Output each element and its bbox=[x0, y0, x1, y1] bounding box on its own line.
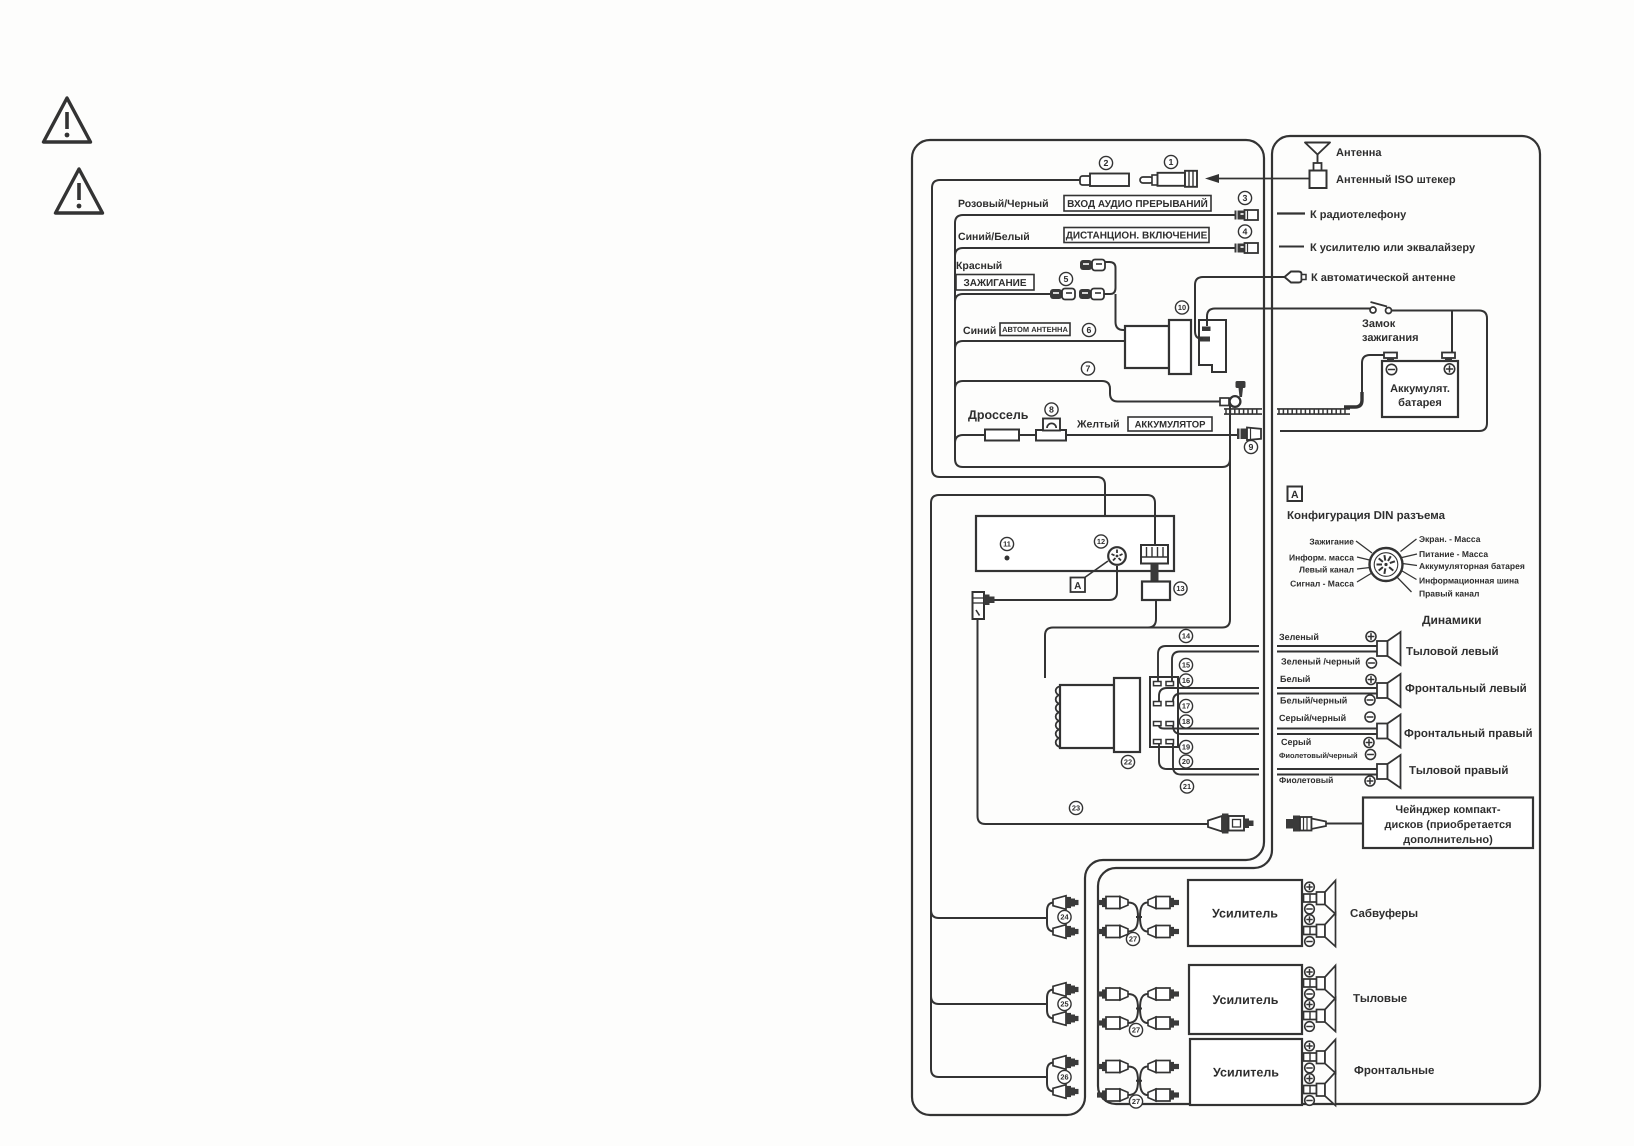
pin pair row 1 bbox=[1154, 682, 1174, 686]
svg-text:11: 11 bbox=[1003, 540, 1011, 549]
svg-text:Синий/Белый: Синий/Белый bbox=[958, 231, 1030, 243]
svg-text:Розовый/Черный: Розовый/Черный bbox=[958, 198, 1049, 210]
wire row ignition (red) bbox=[955, 294, 1051, 302]
svg-text:Тыловой левый: Тыловой левый bbox=[1406, 646, 1499, 658]
cluster 25 RCA leads bbox=[1047, 983, 1079, 1026]
svg-text:АВТОМ АНТЕННА: АВТОМ АНТЕННА bbox=[1002, 325, 1068, 334]
connector stem bbox=[1151, 564, 1159, 583]
DIN pinout leader lines bbox=[1356, 539, 1417, 592]
wire ignition feed from switch to socket pin 1 bbox=[1207, 309, 1370, 327]
splitter 27b bbox=[1097, 988, 1179, 1029]
amplifier 1 with subwoofers bbox=[1188, 880, 1418, 947]
DIN socket female (CD changer) bbox=[1286, 816, 1326, 832]
svg-text:Аккумулят.: Аккумулят. bbox=[1390, 383, 1450, 395]
label 19 bbox=[1179, 740, 1192, 753]
svg-text:ЗАЖИГАНИЕ: ЗАЖИГАНИЕ bbox=[963, 278, 1026, 289]
connector plug 9 bbox=[1237, 428, 1261, 441]
warning triangle icon 1 bbox=[44, 98, 91, 142]
wire from aux jack to DIN circle bbox=[993, 566, 1117, 600]
svg-text:20: 20 bbox=[1182, 757, 1190, 766]
svg-text:27: 27 bbox=[1132, 1026, 1140, 1035]
svg-text:24: 24 bbox=[1060, 913, 1069, 922]
corrugated ground strap left bbox=[1224, 409, 1262, 414]
battery plus terminal bbox=[1444, 364, 1454, 374]
bullet socket automatic antenna bbox=[1277, 272, 1307, 283]
node A reference box bbox=[1288, 487, 1303, 502]
svg-text:6: 6 bbox=[1087, 325, 1092, 335]
wire U-loop to ground stud bbox=[955, 450, 1230, 467]
svg-text:15: 15 bbox=[1182, 661, 1190, 670]
bullet connector pair lower-left bbox=[1050, 289, 1075, 300]
speaker pin connector block bbox=[1150, 677, 1178, 747]
svg-text:16: 16 bbox=[1182, 676, 1190, 685]
svg-text:A: A bbox=[1074, 581, 1081, 592]
svg-text:К усилителю или эквалайзеру: К усилителю или эквалайзеру bbox=[1310, 242, 1476, 254]
speaker front-right bbox=[1377, 715, 1401, 748]
aux jack plug bbox=[973, 592, 995, 619]
wire to CD changer bbox=[1326, 823, 1363, 825]
svg-text:14: 14 bbox=[1182, 632, 1191, 641]
amplifier 2 with rear speakers bbox=[1189, 965, 1407, 1034]
wire antenna lead from connector 2 down into head unit bbox=[932, 180, 1105, 534]
pin pair row 2 bbox=[1154, 702, 1174, 706]
terminal minus rear-left bbox=[1367, 658, 1377, 668]
svg-text:ВХОД АУДИО ПРЕРЫВАНИЙ: ВХОД АУДИО ПРЕРЫВАНИЙ bbox=[1067, 197, 1208, 210]
ignition switch bbox=[1370, 302, 1392, 314]
battery bbox=[1382, 353, 1458, 418]
wire front-right speaker pair (gray) bbox=[1159, 726, 1377, 735]
pin pair row 3 bbox=[1154, 722, 1174, 726]
speaker rear-left bbox=[1377, 632, 1401, 665]
svg-text:Красный: Красный bbox=[956, 260, 1002, 272]
label 9 bbox=[1244, 440, 1257, 453]
svg-text:Сабвуферы: Сабвуферы bbox=[1350, 908, 1418, 920]
wire row audio-interrupt input (pink/black) bbox=[955, 215, 1235, 459]
svg-text:21: 21 bbox=[1183, 782, 1191, 791]
fuse holder 8 bbox=[1036, 419, 1066, 441]
svg-text:Конфигурация DIN разъема: Конфигурация DIN разъема bbox=[1287, 510, 1446, 522]
wire branch to cluster 25 bbox=[931, 996, 1047, 1004]
ISO antenna socket bbox=[1310, 163, 1327, 188]
svg-text:Левый канал: Левый канал bbox=[1299, 565, 1354, 575]
svg-text:7: 7 bbox=[1086, 364, 1091, 374]
svg-text:1: 1 bbox=[1169, 157, 1174, 167]
label 27a bbox=[1126, 932, 1139, 945]
svg-text:Тыловой правый: Тыловой правый bbox=[1409, 765, 1508, 777]
ISO connector housing 22 bbox=[1060, 678, 1140, 752]
svg-text:Белый: Белый bbox=[1280, 674, 1310, 684]
label 22 bbox=[1121, 755, 1134, 768]
head unit rear pin block bbox=[1141, 545, 1168, 564]
label 25 bbox=[1058, 997, 1071, 1010]
svg-text:Усилитель: Усилитель bbox=[1212, 907, 1278, 921]
relay socket bracket bbox=[1199, 320, 1226, 372]
terminal minus front-left bbox=[1365, 695, 1375, 705]
label 2 bbox=[1099, 156, 1112, 169]
wire battery minus to ground strap bbox=[1362, 355, 1384, 392]
boxed label ВХОД АУДИО ПРЕРЫВАНИЙ bbox=[1064, 196, 1211, 212]
bullet connector pair lower-right bbox=[1079, 289, 1104, 300]
label 27c bbox=[1129, 1095, 1142, 1108]
svg-text:27: 27 bbox=[1132, 1097, 1140, 1106]
warning triangle icon 2 bbox=[56, 169, 103, 213]
svg-text:27: 27 bbox=[1129, 935, 1137, 944]
svg-text:Экран. - Масса: Экран. - Масса bbox=[1419, 534, 1481, 544]
svg-text:17: 17 bbox=[1182, 702, 1190, 711]
svg-text:18: 18 bbox=[1182, 717, 1190, 726]
svg-text:Серый/черный: Серый/черный bbox=[1279, 713, 1346, 723]
svg-text:9: 9 bbox=[1249, 442, 1254, 452]
relay U10 body bbox=[1125, 320, 1191, 374]
adapter block 13 bbox=[1142, 582, 1170, 601]
label 13 bbox=[1174, 582, 1187, 595]
choke body bbox=[985, 430, 1019, 441]
svg-text:Антенна: Антенна bbox=[1336, 147, 1382, 159]
ring terminal bbox=[1220, 396, 1240, 407]
socket pin 2 bbox=[1200, 337, 1210, 342]
label 15 bbox=[1179, 658, 1192, 671]
svg-text:Зеленый: Зеленый bbox=[1279, 632, 1319, 642]
svg-text:Аккумуляторная батарея: Аккумуляторная батарея bbox=[1419, 561, 1525, 571]
wire 7 chassis ground run bbox=[955, 381, 1221, 402]
svg-text:22: 22 bbox=[1124, 758, 1132, 767]
CD changer box bbox=[1363, 798, 1533, 849]
svg-text:Белый/черный: Белый/черный bbox=[1280, 696, 1347, 706]
label 26 bbox=[1058, 1070, 1071, 1083]
svg-text:Фронтальный правый: Фронтальный правый bbox=[1404, 728, 1533, 740]
svg-text:Тыловые: Тыловые bbox=[1353, 993, 1407, 1005]
antenna symbol bbox=[1305, 143, 1330, 164]
svg-text:Чейнджер компакт-: Чейнджер компакт- bbox=[1395, 804, 1501, 816]
svg-text:Фронтальный левый: Фронтальный левый bbox=[1405, 683, 1527, 695]
connector C1 antenna plug bbox=[1140, 171, 1197, 187]
label 8 bbox=[1045, 403, 1058, 416]
svg-text:Желтый: Желтый bbox=[1076, 419, 1120, 431]
svg-text:Антенный ISO штекер: Антенный ISO штекер bbox=[1336, 174, 1456, 186]
vehicle accessories enclosure box bbox=[1098, 136, 1540, 1104]
node A marker box with leader bbox=[1071, 561, 1109, 592]
head unit 11 outline bbox=[976, 516, 1174, 571]
label 14 bbox=[1179, 629, 1192, 642]
svg-text:Зажигание: Зажигание bbox=[1309, 537, 1354, 547]
amplifier 3 with front speakers bbox=[1190, 1039, 1434, 1106]
wire front-left speaker pair (white) bbox=[1159, 688, 1377, 702]
svg-text:Информ. масса: Информ. масса bbox=[1289, 553, 1354, 563]
label 7 bbox=[1081, 362, 1094, 375]
ground strap elbow bbox=[1344, 392, 1362, 407]
ground bolt bbox=[1236, 381, 1246, 397]
arrow from ISO antenna plug to connector 1 bbox=[1205, 174, 1311, 183]
boxed label АККУМУЛЯТОР bbox=[1128, 417, 1212, 431]
svg-text:2: 2 bbox=[1104, 158, 1109, 168]
wire row power antenna (blue) bbox=[955, 341, 1125, 349]
cluster 24 RCA leads bbox=[1047, 896, 1079, 939]
svg-text:К автоматической антенне: К автоматической антенне bbox=[1311, 272, 1456, 284]
DIN plug pinout diagram bbox=[1370, 548, 1403, 581]
svg-text:Фиолетовый/черный: Фиолетовый/черный bbox=[1279, 751, 1358, 760]
terminal plus rear-right bbox=[1365, 776, 1375, 786]
wire automatic antenna output to bullet bbox=[1195, 277, 1285, 339]
terminal minus front-right bbox=[1365, 712, 1375, 722]
wire from block 13 to ground stud and ISO block bbox=[1045, 403, 1230, 678]
label 23 bbox=[1069, 801, 1082, 814]
wire red drop to relay bbox=[1116, 294, 1127, 330]
head-unit harness enclosure box bbox=[912, 140, 1264, 1115]
splitter 27a bbox=[1097, 897, 1179, 938]
label 1 bbox=[1164, 155, 1177, 168]
wire rear-right speaker pair (violet) bbox=[1159, 744, 1377, 775]
boxed label ЗАЖИГАНИЕ bbox=[956, 275, 1034, 291]
wire red riser to upper bullet bbox=[1104, 262, 1116, 294]
svg-text:Правый канал: Правый канал bbox=[1419, 589, 1479, 599]
svg-text:Сигнал - Масса: Сигнал - Масса bbox=[1290, 579, 1354, 589]
svg-text:Дроссель: Дроссель bbox=[968, 408, 1029, 422]
label 12 bbox=[1094, 535, 1107, 548]
svg-text:Питание - Масса: Питание - Масса bbox=[1419, 549, 1488, 559]
stub wire radiotelephone bbox=[1277, 212, 1305, 214]
label 3 bbox=[1238, 191, 1251, 204]
connector plug 4 bbox=[1235, 243, 1259, 253]
wire feed into head unit pin block bbox=[931, 495, 1155, 1077]
corrugated ground strap right bbox=[1277, 409, 1350, 414]
svg-text:10: 10 bbox=[1178, 303, 1186, 312]
wire branch to cluster 24 bbox=[931, 910, 1047, 918]
boxed label ДИСТАНЦИОН. ВКЛЮЧЕНИЕ bbox=[1064, 228, 1209, 243]
svg-text:зажигания: зажигания bbox=[1362, 332, 1419, 344]
label 24 bbox=[1058, 910, 1071, 923]
svg-text:12: 12 bbox=[1097, 537, 1105, 546]
label 17 bbox=[1179, 699, 1192, 712]
wire loop to yellow battery lead bbox=[1280, 311, 1487, 432]
speaker rear-right bbox=[1377, 755, 1401, 788]
terminal plus front-left bbox=[1366, 675, 1376, 685]
label 10 bbox=[1175, 301, 1188, 314]
svg-text:дисков (приобретается: дисков (приобретается bbox=[1384, 819, 1511, 831]
svg-text:26: 26 bbox=[1060, 1073, 1068, 1082]
svg-text:3: 3 bbox=[1243, 193, 1248, 203]
wire 23 changer lead bbox=[978, 619, 1209, 824]
battery minus terminal bbox=[1386, 364, 1396, 374]
label 4 bbox=[1238, 225, 1251, 238]
svg-text:13: 13 bbox=[1176, 584, 1184, 593]
svg-text:25: 25 bbox=[1060, 1000, 1068, 1009]
wire row remote turn-on (blue/white) bbox=[955, 248, 1235, 256]
wire rear-left speaker pair (green) bbox=[1158, 646, 1377, 681]
socket pin 1 bbox=[1202, 327, 1211, 332]
svg-text:23: 23 bbox=[1072, 804, 1080, 813]
svg-text:Усилитель: Усилитель bbox=[1213, 1066, 1279, 1080]
stub wire amplifier/equalizer bbox=[1279, 246, 1304, 248]
bullet connector pair upper bbox=[1080, 260, 1105, 271]
wire row battery (yellow) with fuse and choke bbox=[955, 435, 1237, 443]
svg-text:8: 8 bbox=[1049, 405, 1054, 415]
label 18 bbox=[1179, 715, 1192, 728]
boxed label АВТОМ АНТЕННА bbox=[1000, 323, 1070, 336]
label 27b bbox=[1129, 1023, 1142, 1036]
DIN plug male (changer cord) bbox=[1208, 814, 1254, 834]
label 11 bbox=[1000, 537, 1013, 550]
connector plug 3 bbox=[1235, 210, 1259, 220]
terminal minus rear-right bbox=[1366, 750, 1376, 760]
label 5 bbox=[1059, 272, 1072, 285]
label 16 bbox=[1179, 674, 1192, 687]
svg-text:Динамики: Динамики bbox=[1422, 613, 1481, 627]
terminal plus rear-left bbox=[1366, 632, 1376, 642]
svg-text:Синий: Синий bbox=[963, 325, 996, 337]
svg-text:Информационная шина: Информационная шина bbox=[1419, 576, 1519, 586]
label 21 bbox=[1180, 780, 1193, 793]
svg-text:Зеленый /черный: Зеленый /черный bbox=[1281, 657, 1360, 667]
cluster 26 RCA leads bbox=[1047, 1056, 1079, 1099]
DIN connector circle on head unit bbox=[1108, 547, 1126, 565]
svg-text:5: 5 bbox=[1064, 274, 1069, 284]
svg-text:Фронтальные: Фронтальные bbox=[1354, 1065, 1434, 1077]
svg-text:дополнительно): дополнительно) bbox=[1403, 834, 1493, 846]
terminal plus front-right bbox=[1364, 738, 1374, 748]
splitter 27c bbox=[1097, 1061, 1179, 1102]
svg-text:Серый: Серый bbox=[1281, 737, 1311, 747]
svg-text:АККУМУЛЯТОР: АККУМУЛЯТОР bbox=[1135, 419, 1207, 430]
head unit small knob dot bbox=[1005, 556, 1010, 561]
label 6 bbox=[1082, 323, 1095, 336]
ISO harness ribbed cable bbox=[1056, 687, 1060, 747]
svg-text:A: A bbox=[1291, 489, 1299, 501]
pin pair row 4 bbox=[1154, 740, 1174, 744]
speaker front-left bbox=[1377, 674, 1401, 707]
wire switch to battery plus bbox=[1392, 311, 1453, 353]
svg-text:Фиолетовый: Фиолетовый bbox=[1279, 775, 1333, 785]
svg-text:К радиотелефону: К радиотелефону bbox=[1310, 209, 1407, 221]
svg-text:Замок: Замок bbox=[1362, 318, 1396, 330]
svg-text:ДИСТАНЦИОН. ВКЛЮЧЕНИЕ: ДИСТАНЦИОН. ВКЛЮЧЕНИЕ bbox=[1066, 231, 1208, 242]
svg-text:Усилитель: Усилитель bbox=[1213, 993, 1279, 1007]
label 20 bbox=[1179, 755, 1192, 768]
svg-text:4: 4 bbox=[1243, 227, 1248, 237]
svg-text:19: 19 bbox=[1182, 743, 1190, 752]
connector C2 antenna adapter bbox=[1080, 174, 1129, 187]
svg-text:батарея: батарея bbox=[1398, 397, 1442, 409]
